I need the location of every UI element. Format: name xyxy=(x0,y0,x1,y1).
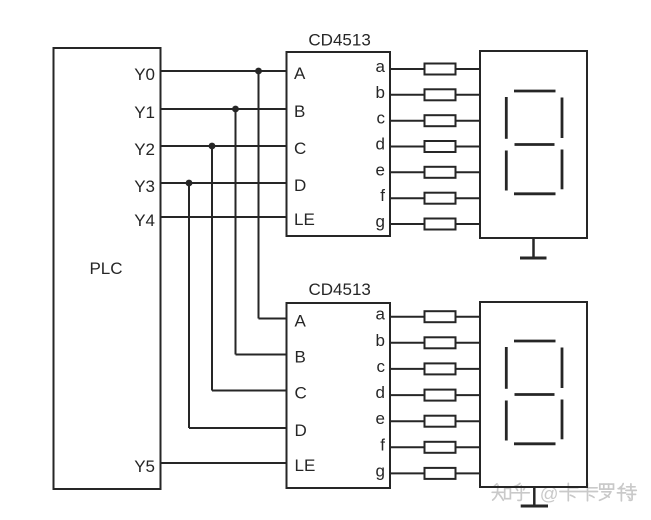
svg-text:A: A xyxy=(295,312,307,331)
svg-text:B: B xyxy=(294,102,305,121)
svg-text:c: c xyxy=(377,357,386,376)
svg-text:a: a xyxy=(376,305,386,324)
svg-text:Y5: Y5 xyxy=(134,457,155,476)
svg-text:C: C xyxy=(294,139,306,158)
svg-text:PLC: PLC xyxy=(89,259,122,278)
svg-text:e: e xyxy=(376,160,385,179)
svg-text:Y4: Y4 xyxy=(134,211,155,230)
svg-text:C: C xyxy=(295,384,307,403)
svg-text:Y0: Y0 xyxy=(134,65,155,84)
svg-text:D: D xyxy=(295,421,307,440)
svg-text:LE: LE xyxy=(294,210,315,229)
svg-text:Y2: Y2 xyxy=(134,140,155,159)
svg-text:a: a xyxy=(376,57,386,76)
svg-text:f: f xyxy=(380,435,385,454)
svg-text:CD4513: CD4513 xyxy=(308,31,370,50)
svg-text:D: D xyxy=(294,176,306,195)
svg-text:d: d xyxy=(376,135,385,154)
svg-text:b: b xyxy=(376,83,385,102)
svg-text:CD4513: CD4513 xyxy=(309,280,371,299)
svg-text:f: f xyxy=(380,186,385,205)
svg-text:A: A xyxy=(294,64,306,83)
svg-text:Y1: Y1 xyxy=(134,103,155,122)
svg-text:e: e xyxy=(376,409,385,428)
svg-text:c: c xyxy=(377,109,386,128)
svg-text:LE: LE xyxy=(295,456,316,475)
svg-text:b: b xyxy=(376,331,385,350)
svg-text:g: g xyxy=(376,461,385,480)
svg-text:B: B xyxy=(295,348,306,367)
svg-text:Y3: Y3 xyxy=(134,177,155,196)
svg-text:d: d xyxy=(376,383,385,402)
svg-text:g: g xyxy=(376,212,385,231)
